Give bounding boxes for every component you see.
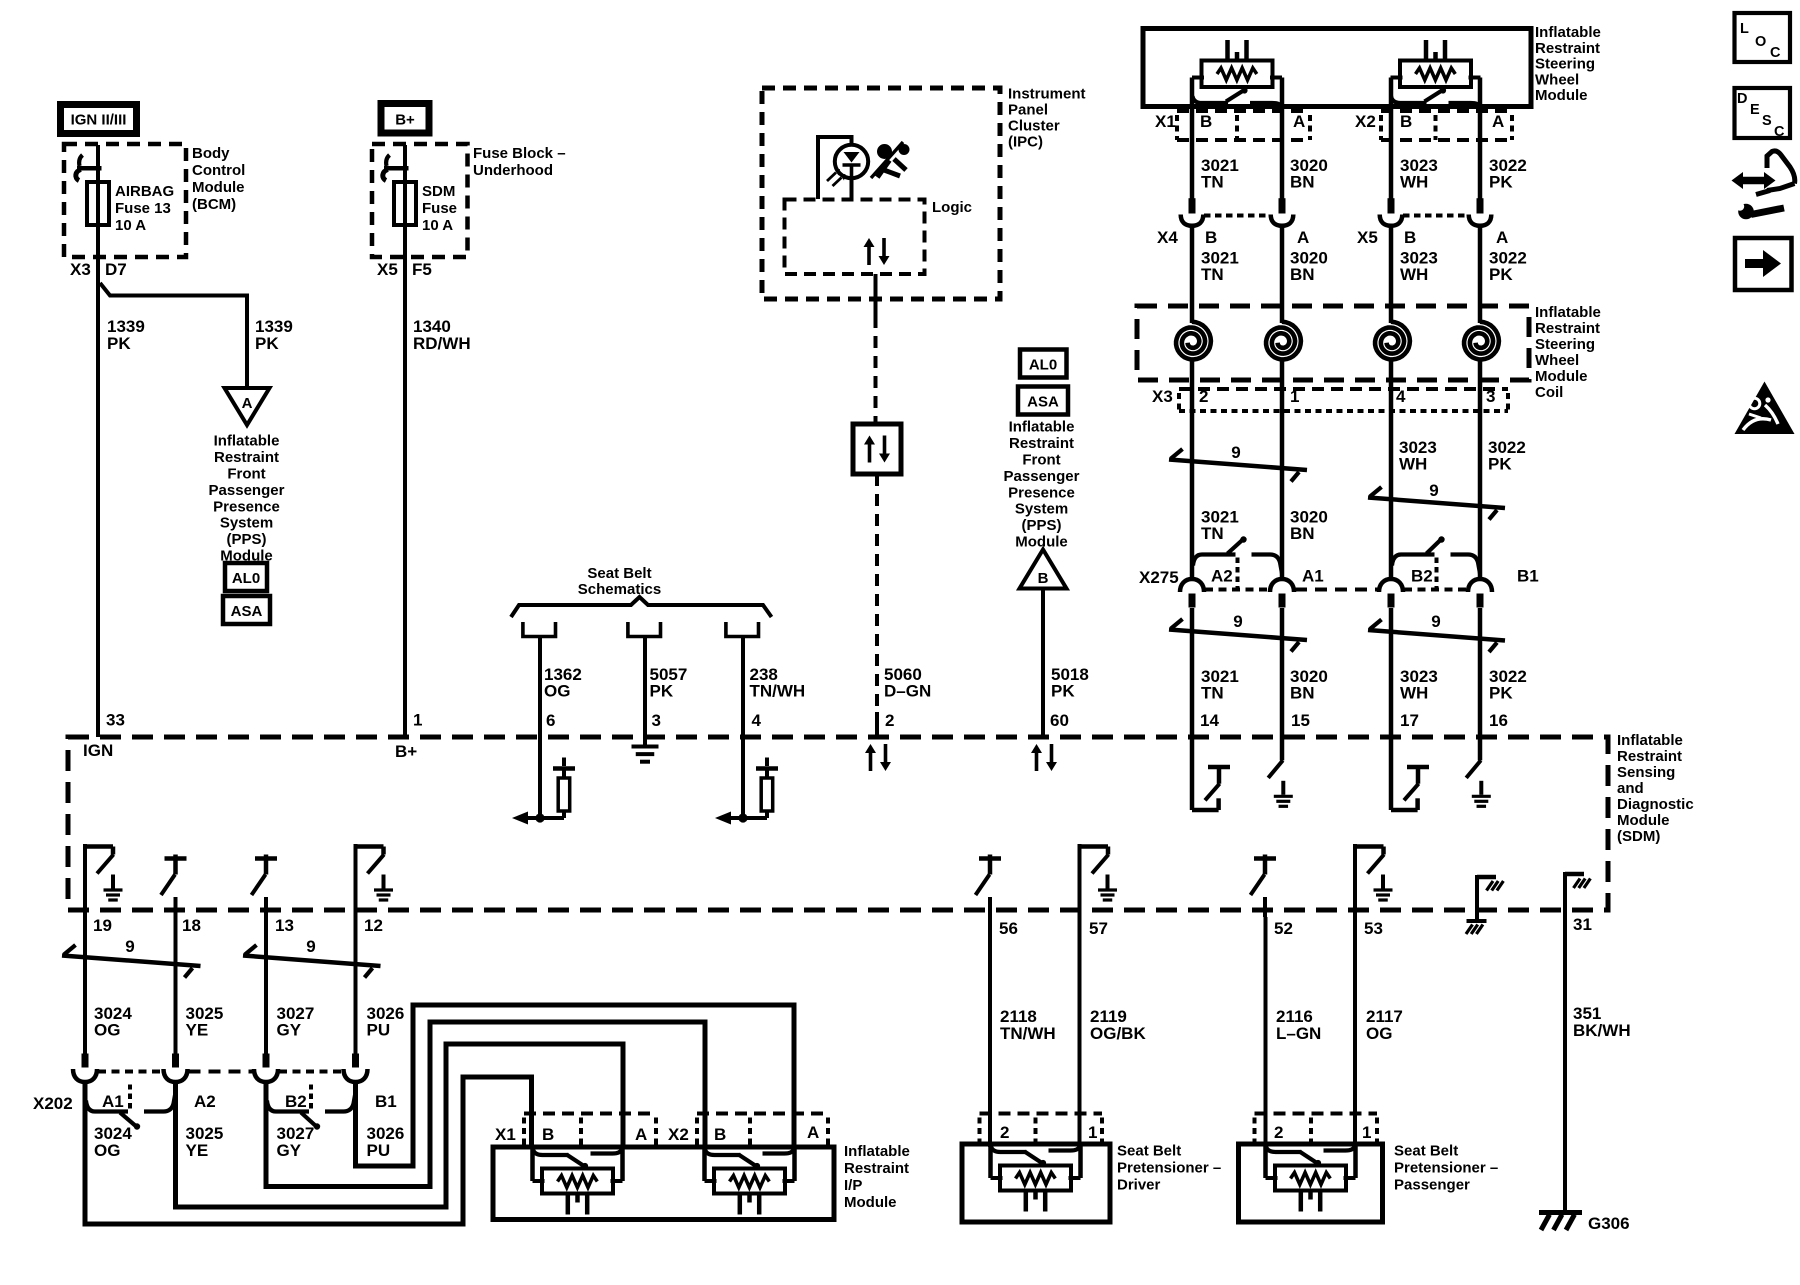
svg-text:YE: YE — [186, 1141, 209, 1160]
fuse F1 AIRBAG Fuse 13 10A — [77, 166, 102, 171]
svg-text:System: System — [220, 515, 273, 532]
connector X3 box — [1179, 387, 1508, 391]
svg-text:PU: PU — [367, 1141, 391, 1160]
sidebar icon forward arrow — [1735, 238, 1792, 290]
svg-text:B2: B2 — [285, 1092, 307, 1111]
wire column x=1192 X275 to SDM — [1190, 608, 1195, 737]
svg-text:RD/WH: RD/WH — [413, 334, 471, 353]
sidebar icon LOC — [1735, 13, 1791, 62]
wire 3024 OG X202-A1 to IP X1-B — [85, 1077, 532, 1224]
svg-text:X2: X2 — [668, 1125, 689, 1144]
sdm seat belt input pin 6 wire — [538, 737, 542, 818]
sdm driver loop high switch (pin 14) — [1190, 737, 1195, 810]
twisted pair marker 9 (coil left) — [1169, 460, 1307, 471]
svg-text:B2: B2 — [1411, 567, 1433, 586]
connector X202 socket B2 — [254, 1069, 278, 1082]
squib passenger pretensioner — [1266, 1146, 1302, 1152]
in-line connector X4 pin A — [1279, 198, 1286, 213]
sdm passenger loop high switch (pin 17) — [1389, 737, 1394, 810]
module box Inflatable Restraint Sensing and Diagnostic Module (SDM) — [68, 737, 1608, 910]
svg-text:TN: TN — [1201, 684, 1224, 703]
sdm switch (pin 56) — [979, 856, 1001, 861]
module box Inflatable Restraint Steering Wheel Module Coil — [1137, 306, 1529, 380]
brace for seat belt schematics — [511, 597, 772, 617]
squib passenger airbag stage 1 — [533, 1149, 569, 1155]
svg-text:Underhood: Underhood — [473, 162, 553, 179]
svg-text:3: 3 — [652, 711, 661, 730]
svg-text:9: 9 — [1233, 612, 1242, 631]
sidebar icon arrows and wrench — [1741, 177, 1766, 185]
svg-text:BN: BN — [1290, 173, 1315, 192]
svg-text:F5: F5 — [412, 260, 432, 279]
svg-text:A2: A2 — [194, 1092, 216, 1111]
svg-text:13: 13 — [275, 916, 294, 935]
svg-text:AL0: AL0 — [1029, 357, 1057, 374]
svg-text:18: 18 — [182, 916, 201, 935]
wire column x=1391 X4/X5 to coil — [1389, 226, 1394, 323]
svg-text:Restraint: Restraint — [1617, 748, 1682, 765]
svg-text:17: 17 — [1400, 711, 1419, 730]
svg-text:2: 2 — [1000, 1123, 1009, 1142]
in-line connector X5 pin A — [1477, 198, 1484, 213]
connector X275 socket A2 — [1180, 579, 1204, 592]
svg-text:X5: X5 — [377, 260, 398, 279]
svg-text:Restraint: Restraint — [1535, 320, 1600, 337]
svg-text:X3: X3 — [1152, 387, 1173, 406]
wire column x=1480 X275 to SDM — [1478, 608, 1483, 737]
svg-text:A: A — [242, 395, 253, 412]
svg-text:OG: OG — [544, 682, 570, 701]
svg-text:AIRBAG: AIRBAG — [115, 183, 174, 200]
wire from IGN through BCM fuse — [96, 145, 100, 283]
wire pin13 to X202 B2 — [264, 917, 268, 1054]
sdm switch + ground (pin 53) — [1353, 844, 1357, 917]
svg-text:(BCM): (BCM) — [192, 196, 236, 213]
svg-text:1: 1 — [1290, 387, 1299, 406]
wire 3025 YE X202-A2 to IP X1-A — [176, 1044, 624, 1207]
connector X4 dotted link — [1204, 214, 1270, 218]
coil spiral 3 — [1375, 322, 1410, 360]
twisted pair marker 9 (X202 right) — [243, 956, 381, 967]
wire 1340 RD/WH to SDM pin 1 — [403, 225, 407, 737]
svg-text:Inflatable: Inflatable — [214, 433, 280, 450]
svg-text:OG: OG — [94, 1141, 120, 1160]
svg-text:X202: X202 — [33, 1094, 73, 1113]
svg-text:Fuse Block –: Fuse Block – — [473, 145, 566, 162]
wire 1339 PK left branch to SDM pin 33 — [96, 281, 100, 737]
svg-text:L: L — [1740, 21, 1749, 37]
wire 3026 PU X202-B1 to IP X2-A — [356, 1005, 795, 1166]
svg-text:Steering: Steering — [1535, 336, 1595, 353]
svg-text:and: and — [1617, 780, 1644, 797]
svg-text:X4: X4 — [1157, 228, 1178, 247]
svg-text:ASA: ASA — [231, 603, 263, 620]
sdm pin 4 branch to resistor — [731, 816, 767, 820]
sdm switch (pin 13) — [255, 856, 277, 861]
svg-text:A: A — [1293, 112, 1305, 131]
contact T (pin 4 resistor) — [756, 766, 778, 771]
svg-text:G306: G306 — [1588, 1214, 1630, 1233]
svg-text:Pretensioner –: Pretensioner – — [1394, 1160, 1498, 1177]
svg-text:Pretensioner –: Pretensioner – — [1117, 1160, 1221, 1177]
svg-text:(SDM): (SDM) — [1617, 828, 1660, 845]
contact T (pin 6 resistor) — [553, 766, 575, 771]
wire column x=1282 X4/X5 to coil — [1280, 226, 1285, 323]
svg-text:PK: PK — [1051, 682, 1075, 701]
svg-text:BK/WH: BK/WH — [1573, 1021, 1631, 1040]
svg-text:Steering: Steering — [1535, 56, 1595, 73]
sdm switch (pin 52) — [1254, 856, 1276, 861]
module box Instrument Panel Cluster (IPC) — [762, 88, 1000, 299]
svg-text:A: A — [635, 1125, 647, 1144]
sdm switch + ground (pin 57) — [1078, 844, 1082, 917]
svg-text:GY: GY — [277, 1141, 302, 1160]
connector X202 socket A2 — [164, 1069, 188, 1082]
svg-text:B: B — [714, 1125, 726, 1144]
svg-text:Panel: Panel — [1008, 102, 1048, 119]
svg-text:AL0: AL0 — [232, 570, 260, 587]
module box Inflatable Restraint I/P Module — [493, 1147, 834, 1220]
svg-text:4: 4 — [1396, 387, 1406, 406]
wire pin18 to X202 A2 — [174, 917, 178, 1054]
svg-text:BN: BN — [1290, 684, 1315, 703]
svg-text:B: B — [542, 1125, 554, 1144]
junction dot pin 6 — [535, 813, 544, 822]
connector IP X1 box — [524, 1112, 656, 1116]
svg-text:Diagnostic: Diagnostic — [1617, 796, 1694, 813]
coil spiral 4 — [1464, 322, 1499, 360]
module box Body Control Module (BCM) — [64, 144, 186, 257]
svg-text:Sensing: Sensing — [1617, 764, 1675, 781]
svg-text:B: B — [1404, 228, 1416, 247]
svg-text:B1: B1 — [1517, 567, 1539, 586]
svg-text:2: 2 — [885, 711, 894, 730]
svg-text:D–GN: D–GN — [884, 682, 931, 701]
wire serial data 5060 D-GN to SDM pin 2 — [875, 474, 879, 712]
svg-text:X1: X1 — [495, 1125, 516, 1144]
svg-text:PK: PK — [255, 334, 279, 353]
wire 1339 PK right branch — [100, 283, 247, 388]
svg-text:6: 6 — [546, 711, 555, 730]
serial data arrows in SDM (pin 60) — [1035, 752, 1039, 771]
wire 2116 L-GN pin52 to passenger pretensioner — [1264, 917, 1268, 1147]
svg-text:A2: A2 — [1211, 567, 1233, 586]
module box Inflatable Restraint Steering Wheel Module — [1143, 29, 1531, 107]
svg-text:WH: WH — [1400, 173, 1428, 192]
arrow continuation left (pin 6) — [512, 812, 528, 825]
svg-text:Wheel: Wheel — [1535, 352, 1579, 369]
power feed label B+ — [378, 100, 433, 137]
svg-text:10 A: 10 A — [115, 217, 146, 234]
svg-text:Module: Module — [1535, 87, 1588, 104]
squib driver airbag stage 1 — [1225, 40, 1230, 62]
svg-text:TN/WH: TN/WH — [1000, 1024, 1056, 1043]
connector shell seat belt circuit 1 — [523, 622, 556, 637]
svg-text:L–GN: L–GN — [1276, 1024, 1321, 1043]
wire column x=1391 X275 to SDM — [1389, 608, 1394, 737]
connector X1 bottom edge — [1177, 138, 1310, 142]
svg-text:System: System — [1015, 501, 1068, 518]
sdm seat belt input pin 3 wire — [643, 737, 647, 744]
wire 1362 OG to SDM pin 6 — [538, 636, 542, 737]
svg-text:53: 53 — [1364, 919, 1383, 938]
connector code box ASA (left) — [223, 596, 270, 624]
wire 238 TN/WH to SDM pin 4 — [741, 636, 745, 737]
svg-text:52: 52 — [1274, 919, 1293, 938]
svg-text:X3: X3 — [70, 260, 91, 279]
module box Seat Belt Pretensioner Driver — [962, 1144, 1110, 1222]
airbag indicator lamp circuit in IPC — [818, 137, 852, 199]
svg-text:B+: B+ — [395, 742, 417, 761]
svg-text:X275: X275 — [1139, 568, 1179, 587]
svg-text:PU: PU — [367, 1021, 391, 1040]
svg-text:(PPS): (PPS) — [1021, 517, 1061, 534]
svg-text:B: B — [1400, 112, 1412, 131]
svg-text:C: C — [1774, 124, 1785, 140]
svg-text:15: 15 — [1291, 711, 1310, 730]
connector X275 shorting clip B — [1392, 555, 1435, 566]
wire column x=1391 module to X4/X5 — [1389, 78, 1394, 199]
wire 2117 OG pin53 to passenger pretensioner — [1353, 917, 1357, 1147]
svg-text:Front: Front — [1022, 451, 1060, 468]
svg-text:31: 31 — [1573, 915, 1592, 934]
svg-text:4: 4 — [752, 711, 762, 730]
connector box driver pretensioner — [980, 1112, 1103, 1116]
svg-text:57: 57 — [1089, 919, 1108, 938]
svg-text:60: 60 — [1050, 711, 1069, 730]
svg-text:Inflatable: Inflatable — [1535, 24, 1601, 41]
svg-text:BN: BN — [1290, 265, 1315, 284]
wire 2118 TN/WH pin56 to driver pretensioner — [988, 917, 992, 1147]
svg-text:(IPC): (IPC) — [1008, 134, 1043, 151]
sdm switch + ground (pin 19) — [83, 844, 87, 917]
connector code box AL0 (right) — [1020, 350, 1067, 378]
wire 2119 OG/BK pin57 to driver pretensioner — [1078, 917, 1082, 1147]
svg-text:1: 1 — [1362, 1123, 1371, 1142]
wire column x=1192 X4/X5 to coil — [1190, 226, 1195, 323]
svg-text:Logic: Logic — [932, 199, 972, 216]
svg-text:WH: WH — [1400, 684, 1428, 703]
serial data interface box — [853, 424, 901, 474]
connector X275 socket B1 — [1468, 579, 1492, 592]
connector shell seat belt circuit 3 — [726, 622, 759, 637]
in-line connector X5 pin B — [1388, 198, 1395, 213]
wire column x=1282 module to X4/X5 — [1280, 78, 1285, 199]
svg-text:A1: A1 — [1302, 567, 1324, 586]
svg-text:Presence: Presence — [213, 498, 280, 515]
svg-text:OG: OG — [94, 1021, 120, 1040]
svg-text:Coil: Coil — [1535, 384, 1563, 401]
squib driver pretensioner — [991, 1146, 1027, 1152]
svg-text:Seat Belt: Seat Belt — [587, 565, 651, 582]
squib passenger airbag stage 2 — [705, 1149, 741, 1155]
svg-text:Fuse: Fuse — [422, 200, 457, 217]
sdm pin 6 branch to resistor — [528, 816, 564, 820]
wire serial data from IPC logic — [874, 274, 878, 316]
connector code box ASA (right) — [1018, 387, 1068, 415]
svg-text:Passenger: Passenger — [1394, 1177, 1470, 1194]
twisted pair marker 9 (X202 left) — [62, 956, 201, 967]
svg-text:Inflatable: Inflatable — [1009, 419, 1075, 436]
svg-text:D7: D7 — [105, 260, 127, 279]
svg-text:B: B — [1200, 112, 1212, 131]
svg-text:Inflatable: Inflatable — [1535, 304, 1601, 321]
svg-text:TN: TN — [1201, 524, 1224, 543]
wire 5057 PK to SDM pin 3 — [643, 636, 647, 737]
svg-text:PK: PK — [1489, 684, 1513, 703]
svg-text:Module: Module — [192, 179, 245, 196]
svg-text:12: 12 — [364, 916, 383, 935]
svg-text:33: 33 — [106, 711, 125, 730]
sdm switch (pin 18) — [165, 856, 187, 861]
svg-text:Restraint: Restraint — [844, 1160, 909, 1177]
connector shell seat belt circuit 2 — [628, 622, 661, 637]
serial data arrows in logic block — [867, 246, 871, 265]
svg-text:B: B — [1205, 228, 1217, 247]
svg-text:Wheel: Wheel — [1535, 71, 1579, 88]
svg-text:2: 2 — [1274, 1123, 1283, 1142]
sdm seat belt input pin 4 wire — [741, 737, 745, 818]
svg-text:B1: B1 — [375, 1092, 397, 1111]
svg-text:Body: Body — [192, 145, 230, 162]
svg-text:Cluster: Cluster — [1008, 118, 1060, 135]
connector X1 box — [1177, 109, 1310, 113]
svg-text:TN: TN — [1201, 173, 1224, 192]
svg-text:A: A — [807, 1123, 819, 1142]
sdm case ground branch — [1475, 875, 1479, 921]
svg-text:X5: X5 — [1357, 228, 1378, 247]
svg-text:OG: OG — [1366, 1024, 1392, 1043]
connector X202 socket A1 — [73, 1069, 97, 1082]
svg-text:Control: Control — [192, 162, 245, 179]
svg-text:Passenger: Passenger — [209, 482, 285, 499]
sidebar warning triangle airbag — [1735, 382, 1795, 435]
wire 5018 PK to SDM pin 60 — [1041, 589, 1045, 738]
connector X2 box — [1381, 109, 1512, 113]
svg-text:S: S — [1762, 113, 1772, 129]
module box Fuse Block - Underhood — [372, 144, 468, 257]
wire pin19 to X202 A1 — [83, 917, 87, 1054]
svg-text:Module: Module — [1617, 812, 1670, 829]
connector X275 socket A1 — [1270, 579, 1294, 592]
svg-text:Module: Module — [1535, 368, 1588, 385]
connector IP X2 box — [697, 1112, 828, 1116]
svg-text:Module: Module — [1015, 534, 1068, 551]
wire 351 BK/WH pin31 to G306 — [1563, 910, 1567, 1213]
twisted pair marker 9 (sdm left) — [1169, 630, 1307, 641]
svg-text:IGN: IGN — [83, 741, 113, 760]
module box Seat Belt Pretensioner Passenger — [1239, 1144, 1383, 1222]
svg-text:E: E — [1750, 102, 1760, 118]
twisted pair marker 9 (sdm right) — [1368, 630, 1505, 641]
svg-text:A: A — [1492, 112, 1504, 131]
svg-text:Driver: Driver — [1117, 1177, 1161, 1194]
in-line connector X4 pin B — [1189, 198, 1196, 213]
svg-text:PK: PK — [1489, 265, 1513, 284]
svg-text:I/P: I/P — [844, 1177, 862, 1194]
svg-text:Passenger: Passenger — [1004, 468, 1080, 485]
wire column x=1480 module to X4/X5 — [1478, 78, 1483, 199]
svg-text:PK: PK — [650, 682, 674, 701]
connector X275 shorting clip A — [1193, 555, 1236, 566]
serial data arrows in SDM (pin 2) — [869, 752, 873, 771]
svg-text:PK: PK — [107, 334, 131, 353]
svg-text:9: 9 — [125, 937, 134, 956]
svg-text:19: 19 — [93, 916, 112, 935]
svg-text:Schematics: Schematics — [578, 581, 661, 598]
wire column x=1282 coil to X275 — [1280, 361, 1285, 580]
connector X202 shorting clip A — [86, 1101, 128, 1112]
svg-text:56: 56 — [999, 919, 1018, 938]
sidebar icon DESC — [1735, 88, 1791, 138]
svg-text:O: O — [1755, 34, 1766, 50]
svg-text:BN: BN — [1290, 524, 1315, 543]
wire pin12 to X202 B1 — [354, 917, 358, 1054]
wire 3027 GY X202-B2 to IP X2-B — [266, 1022, 705, 1187]
svg-text:YE: YE — [186, 1021, 209, 1040]
svg-text:Instrument: Instrument — [1008, 86, 1086, 103]
wire column x=1192 module to X4/X5 — [1190, 78, 1195, 199]
svg-text:WH: WH — [1399, 455, 1427, 474]
svg-text:(PPS): (PPS) — [226, 531, 266, 548]
svg-text:TN: TN — [1201, 265, 1224, 284]
svg-text:Fuse 13: Fuse 13 — [115, 200, 171, 217]
twisted pair marker 9 (coil right) — [1368, 498, 1505, 509]
svg-text:Module: Module — [844, 1194, 897, 1211]
logic block in IPC — [785, 200, 925, 275]
connector X275 socket B2 — [1379, 579, 1403, 592]
sdm driver loop low switch + ground (pin 15) — [1280, 737, 1285, 760]
svg-text:PK: PK — [1488, 455, 1512, 474]
svg-text:Inflatable: Inflatable — [1617, 732, 1683, 749]
off-page triangle A to PPS module — [225, 388, 270, 425]
svg-text:3: 3 — [1486, 387, 1495, 406]
wire from B+ through SDM fuse — [403, 145, 407, 225]
connector X202 shorting clip B — [267, 1101, 309, 1112]
junction dot pin 4 — [738, 813, 747, 822]
svg-text:2: 2 — [1199, 387, 1208, 406]
sdm ground output pin 31 — [1563, 872, 1567, 910]
airbag warning pictograph in IPC — [877, 144, 892, 159]
svg-text:9: 9 — [1231, 443, 1240, 462]
svg-text:A1: A1 — [102, 1092, 124, 1111]
svg-text:Restraint: Restraint — [1535, 40, 1600, 57]
svg-text:1: 1 — [413, 711, 422, 730]
svg-text:Restraint: Restraint — [1009, 435, 1074, 452]
svg-text:D: D — [1737, 91, 1747, 107]
wire column x=1480 X4/X5 to coil — [1478, 226, 1483, 323]
connector X202 dashed link — [98, 1070, 163, 1074]
svg-text:Presence: Presence — [1008, 484, 1075, 501]
svg-text:OG/BK: OG/BK — [1090, 1024, 1146, 1043]
ground G306 — [1539, 1210, 1582, 1215]
svg-text:ASA: ASA — [1027, 394, 1059, 411]
coil spiral 2 — [1266, 322, 1301, 360]
resistor in SDM (pin 4) — [761, 778, 773, 811]
svg-text:B: B — [1038, 570, 1049, 587]
svg-text:Restraint: Restraint — [214, 449, 279, 466]
power feed label IGN II/III — [57, 101, 140, 137]
svg-text:9: 9 — [1429, 481, 1438, 500]
connector X2 bottom edge — [1381, 138, 1512, 142]
svg-text:PK: PK — [1489, 173, 1513, 192]
ground symbol in SDM (pin 3) — [643, 737, 647, 745]
svg-text:TN/WH: TN/WH — [750, 682, 806, 701]
resistor in SDM (pin 6) — [558, 778, 570, 811]
connector X202 socket B1 — [344, 1069, 368, 1082]
svg-text:X2: X2 — [1355, 112, 1376, 131]
svg-text:C: C — [1770, 45, 1781, 61]
